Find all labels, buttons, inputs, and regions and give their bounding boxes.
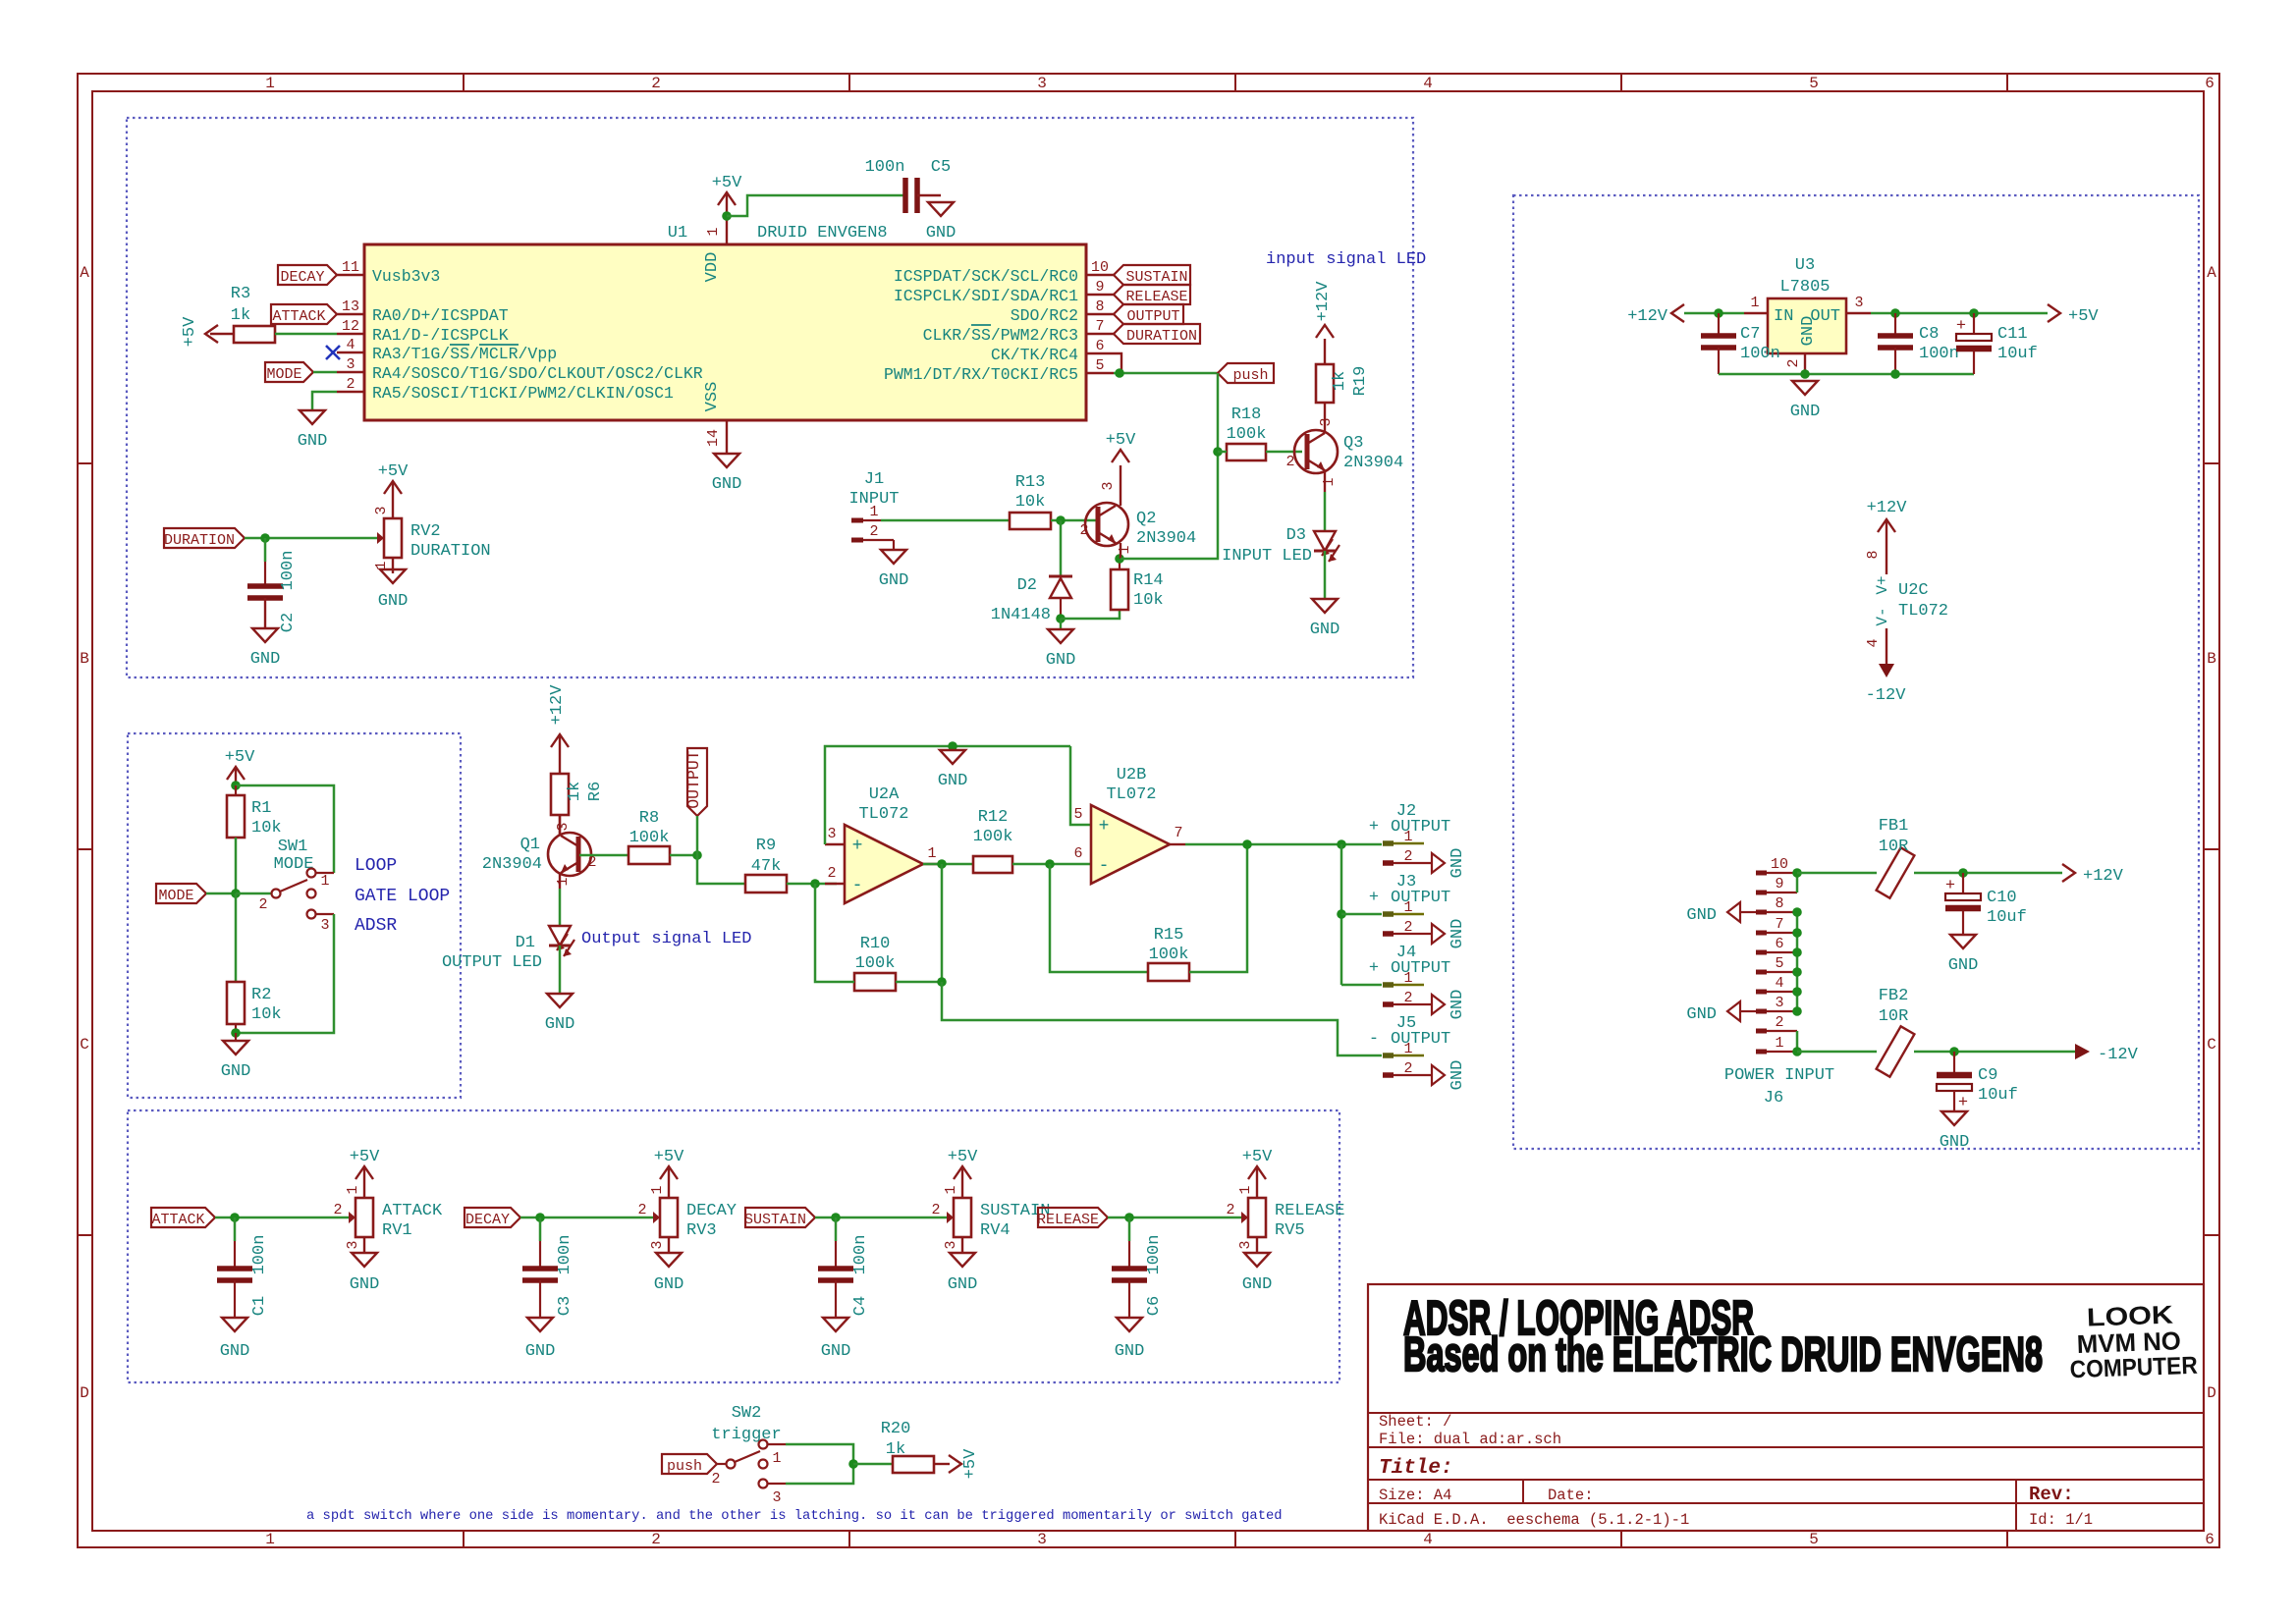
svg-text:14: 14 xyxy=(705,429,722,447)
resistor R10 100k xyxy=(854,935,896,991)
svg-text:10k: 10k xyxy=(251,1005,282,1024)
junction J6 bus xyxy=(1792,1006,1802,1016)
svg-text:10uf: 10uf xyxy=(1997,345,2038,363)
svg-text:GND: GND xyxy=(1115,1342,1145,1361)
svg-text:OUTPUT: OUTPUT xyxy=(1391,1030,1450,1049)
svg-text:-: - xyxy=(1099,856,1110,876)
svg-text:10uf: 10uf xyxy=(1987,908,2027,927)
capacitor C3 100n xyxy=(522,1235,574,1317)
svg-text:RA5/SOSCI/T1CKI/PWM2/CLKIN/OSC: RA5/SOSCI/T1CKI/PWM2/CLKIN/OSC1 xyxy=(372,384,674,403)
svg-text:push: push xyxy=(1232,367,1268,384)
svg-text:GND: GND xyxy=(221,1062,251,1081)
power +5V at R3 xyxy=(181,316,234,347)
junction at C8 top xyxy=(1890,308,1900,318)
wire R15 to U2B output xyxy=(1189,844,1247,972)
svg-text:RELEASE: RELEASE xyxy=(1125,289,1187,305)
svg-text:GND: GND xyxy=(525,1342,556,1361)
svg-text:2: 2 xyxy=(869,523,878,540)
global label GND at J5 xyxy=(1432,1060,1467,1091)
wire C3 to ground xyxy=(539,1280,541,1318)
svg-text:3: 3 xyxy=(1318,417,1335,426)
global label ATTACK xyxy=(151,1208,215,1228)
U1 pin 3 RA4/SOSCO/T1G/SDO/CLKOUT/OSC2/CLKR xyxy=(337,356,703,383)
resistor R18 100k xyxy=(1227,406,1267,460)
svg-text:MODE: MODE xyxy=(266,366,301,383)
junction at R1 top xyxy=(231,781,241,790)
wire FB2 to -12V xyxy=(1914,1051,2075,1054)
svg-text:SW1: SW1 xyxy=(278,838,308,856)
global label MODE at SW1 xyxy=(156,884,206,904)
capacitor C4 100n xyxy=(818,1235,870,1317)
svg-text:GND: GND xyxy=(712,475,742,494)
svg-text:2: 2 xyxy=(827,865,836,882)
svg-text:+5V: +5V xyxy=(225,748,255,767)
svg-text:3: 3 xyxy=(373,506,390,514)
svg-text:1: 1 xyxy=(1321,477,1338,486)
ground at C1 xyxy=(220,1318,250,1361)
svg-text:100k: 100k xyxy=(973,828,1013,846)
svg-text:R19: R19 xyxy=(1351,366,1370,397)
svg-text:1k: 1k xyxy=(1331,371,1349,391)
resistor R20 1k xyxy=(881,1420,934,1473)
svg-text:3: 3 xyxy=(772,1489,781,1506)
wire R8 to OUTPUT junction xyxy=(670,854,697,857)
svg-text:Size: A4: Size: A4 xyxy=(1379,1487,1451,1504)
svg-text:TL072: TL072 xyxy=(1898,602,1948,621)
wire C4 to ground xyxy=(835,1280,837,1318)
svg-text:RV3: RV3 xyxy=(686,1221,717,1240)
connector J3 + OUTPUT xyxy=(1369,873,1450,936)
junction R10 right xyxy=(937,977,947,987)
svg-text:B: B xyxy=(2207,650,2216,668)
resistor R6 1k xyxy=(551,774,605,815)
svg-text:trigger: trigger xyxy=(711,1426,781,1444)
svg-text:RV2: RV2 xyxy=(410,522,441,541)
potentiometer RV2 DURATION xyxy=(366,503,491,573)
svg-text:input signal LED: input signal LED xyxy=(1266,250,1426,269)
global label RELEASE xyxy=(1114,285,1190,305)
svg-text:C9: C9 xyxy=(1978,1066,1997,1085)
capacitor C7 100n xyxy=(1701,325,1780,363)
svg-text:2N3904: 2N3904 xyxy=(1136,529,1196,548)
svg-text:10uf: 10uf xyxy=(1978,1086,2018,1105)
junction R13 output xyxy=(1056,515,1066,525)
svg-text:DECAY: DECAY xyxy=(465,1212,510,1228)
wire C10 to ground xyxy=(1962,911,1964,935)
svg-text:2: 2 xyxy=(651,75,661,92)
wire MODE label to junction xyxy=(206,893,236,895)
global label GND at J2 xyxy=(1432,848,1467,879)
wire junction to R9 xyxy=(697,855,745,884)
svg-text:100n: 100n xyxy=(556,1235,574,1275)
svg-text:100k: 100k xyxy=(629,829,670,847)
svg-text:R8: R8 xyxy=(639,809,659,828)
svg-text:CLKR/SS/PWM2/RC3: CLKR/SS/PWM2/RC3 xyxy=(923,326,1078,345)
svg-text:2: 2 xyxy=(651,1531,661,1548)
svg-text:GND: GND xyxy=(1686,1005,1717,1024)
U1 pin 4 RA3/T1G/SS/MCLR/Vpp xyxy=(337,337,557,363)
wire junction down to R15 loop xyxy=(1050,864,1148,972)
power -12V arrow right xyxy=(2075,1044,2139,1064)
svg-text:3: 3 xyxy=(320,917,329,934)
U1 pin 6 CK/TK/RC4 xyxy=(991,338,1114,364)
svg-text:MODE: MODE xyxy=(158,888,193,904)
svg-text:RA4/SOSCO/T1G/SDO/CLKOUT/OSC2/: RA4/SOSCO/T1G/SDO/CLKOUT/OSC2/CLKR xyxy=(372,364,703,383)
svg-text:100n: 100n xyxy=(250,1235,269,1275)
svg-text:+5V: +5V xyxy=(712,174,742,192)
svg-text:2: 2 xyxy=(333,1202,342,1218)
connector J2 + OUTPUT xyxy=(1369,802,1450,865)
svg-text:V-: V- xyxy=(1874,607,1891,625)
svg-text:SUSTAIN: SUSTAIN xyxy=(1125,269,1187,286)
wire U1 pin 5 to push label xyxy=(1114,372,1218,375)
svg-text:3: 3 xyxy=(345,1240,361,1249)
capacitor C10 10uf polarized xyxy=(1945,873,2027,927)
wire OUTPUT label to junction xyxy=(696,816,699,855)
svg-text:+5V: +5V xyxy=(961,1448,980,1479)
svg-text:GND: GND xyxy=(1310,621,1340,639)
svg-text:GND: GND xyxy=(378,592,409,611)
junction DURATION net xyxy=(260,533,270,543)
wire J6 pins 2-1 bus xyxy=(1796,1031,1799,1052)
wire C8 bottom xyxy=(1894,348,1896,374)
wire +12V to U3 pin 1 xyxy=(1684,312,1744,315)
junction push net at R18 xyxy=(1213,447,1223,457)
global label DECAY xyxy=(465,1208,520,1228)
svg-text:R9: R9 xyxy=(756,837,776,855)
dashed box pots section xyxy=(128,1110,1339,1382)
wire junction to SW1 common xyxy=(236,893,271,895)
resistor R13 10k xyxy=(1010,473,1051,529)
svg-text:+: + xyxy=(1956,317,1966,336)
svg-text:CK/TK/RC4: CK/TK/RC4 xyxy=(991,346,1078,364)
svg-text:GND: GND xyxy=(350,1275,380,1294)
svg-text:Title:: Title: xyxy=(1379,1457,1453,1480)
svg-text:2: 2 xyxy=(587,854,596,871)
wire junction down to C4 xyxy=(835,1217,838,1241)
junction U2B output at J2 branch xyxy=(1337,839,1346,849)
svg-text:4: 4 xyxy=(1775,975,1783,992)
global label GND at J6 pin 8 xyxy=(1686,902,1756,925)
ground at C2 xyxy=(250,628,281,669)
global label DECAY xyxy=(278,265,337,286)
svg-text:1: 1 xyxy=(943,1185,959,1194)
wire ATTACK label to RV1 xyxy=(215,1217,338,1219)
svg-text:100k: 100k xyxy=(1149,946,1189,964)
potentiometer RV3 DECAY xyxy=(637,1182,737,1253)
svg-text:Q3: Q3 xyxy=(1343,434,1363,453)
junction below D2 xyxy=(1056,614,1066,623)
capacitor C5 100n xyxy=(865,158,952,213)
svg-text:R15: R15 xyxy=(1154,926,1184,945)
svg-text:OUTPUT: OUTPUT xyxy=(1126,308,1179,325)
wire J6 pins 8-3 bus xyxy=(1796,912,1799,1011)
transistor Q3 2N3904 xyxy=(1285,403,1403,492)
resistor R2 10k xyxy=(227,893,282,1033)
svg-text:2: 2 xyxy=(1775,1014,1783,1031)
wire C9 to ground xyxy=(1953,1091,1955,1111)
wire U3 output to +5V xyxy=(1871,312,2048,315)
svg-text:2: 2 xyxy=(258,896,267,913)
ferrite bead FB2 10R xyxy=(1877,987,1915,1077)
global label OUTPUT vertical xyxy=(684,748,707,816)
svg-text:DRUID ENVGEN8: DRUID ENVGEN8 xyxy=(757,224,888,243)
svg-text:RV4: RV4 xyxy=(980,1221,1011,1240)
svg-text:8: 8 xyxy=(1775,895,1783,912)
wire J6 pin10 to FB1 xyxy=(1797,872,1877,875)
svg-text:POWER INPUT: POWER INPUT xyxy=(1724,1066,1834,1085)
ground below D2 xyxy=(1046,619,1076,670)
junction SW2 output xyxy=(848,1459,858,1469)
svg-text:13: 13 xyxy=(342,298,359,315)
svg-text:8: 8 xyxy=(1095,298,1104,315)
svg-text:U2B: U2B xyxy=(1117,766,1147,784)
svg-text:R13: R13 xyxy=(1015,473,1046,492)
ground at D1 xyxy=(545,994,575,1034)
junction ground rail xyxy=(1800,369,1810,379)
svg-text:Id: 1/1: Id: 1/1 xyxy=(2029,1511,2093,1529)
global label ATTACK xyxy=(271,304,337,325)
resistor R8 100k xyxy=(629,809,670,864)
svg-text:KiCad E.D.A. eeschema (5.1.2-: KiCad E.D.A. eeschema (5.1.2-1)-1 xyxy=(1379,1511,1689,1529)
svg-text:+12V: +12V xyxy=(1867,499,1908,517)
wire junction to R18 xyxy=(1218,451,1227,454)
svg-text:-12V: -12V xyxy=(1866,686,1907,705)
wire push label to SW2 common xyxy=(717,1463,726,1465)
svg-text:1: 1 xyxy=(1775,1035,1783,1052)
svg-text:FB1: FB1 xyxy=(1879,817,1909,836)
svg-text:GND: GND xyxy=(1790,403,1821,421)
svg-text:GND: GND xyxy=(821,1342,851,1361)
wire DURATION label to RV2 xyxy=(245,537,366,540)
wire ground rail down to U2B + input xyxy=(1070,746,1091,825)
diode D2 1N4148 xyxy=(991,576,1072,624)
dashed box mode section xyxy=(128,733,461,1098)
svg-text:1: 1 xyxy=(705,227,722,236)
svg-text:RELEASE: RELEASE xyxy=(1275,1202,1344,1220)
power +5V at RV5 xyxy=(1242,1148,1273,1182)
svg-text:1N4148: 1N4148 xyxy=(991,606,1051,624)
op-amp U2C TL072 power pins xyxy=(1865,499,1948,705)
wire +5V rail to SW1 contact 1 xyxy=(236,785,334,873)
svg-text:9: 9 xyxy=(1095,279,1104,296)
power +12V at R19 xyxy=(1314,281,1334,364)
svg-text:R1: R1 xyxy=(251,799,271,818)
svg-text:+: + xyxy=(1958,1094,1968,1112)
svg-text:D2: D2 xyxy=(1017,576,1037,595)
svg-text:L7805: L7805 xyxy=(1779,278,1830,297)
svg-text:5: 5 xyxy=(1095,357,1104,374)
ground at RV5 xyxy=(1242,1253,1273,1294)
svg-text:2: 2 xyxy=(931,1202,940,1218)
svg-text:C: C xyxy=(2207,1036,2216,1054)
svg-text:File: dual ad:ar.sch: File: dual ad:ar.sch xyxy=(1379,1431,1561,1448)
svg-text:GND: GND xyxy=(250,650,281,669)
LED D1 OUTPUT LED xyxy=(442,926,574,972)
global label MODE at U1 xyxy=(265,362,313,383)
svg-text:3: 3 xyxy=(1854,295,1863,311)
svg-text:5: 5 xyxy=(1809,75,1819,92)
junction ground rail xyxy=(948,741,957,751)
power +12V at R6 xyxy=(548,684,569,774)
svg-text:2: 2 xyxy=(1285,454,1294,470)
ground at C4 xyxy=(821,1318,851,1361)
svg-text:3: 3 xyxy=(1237,1240,1254,1249)
svg-text:3: 3 xyxy=(1037,1531,1047,1548)
svg-text:ADSR: ADSR xyxy=(355,916,397,936)
wire RELEASE label to RV5 xyxy=(1108,1217,1230,1219)
svg-text:GND: GND xyxy=(654,1275,684,1294)
wire C6 to ground xyxy=(1128,1280,1130,1318)
junction pin5 net xyxy=(1115,368,1124,378)
IC U1 DRUID ENVGEN8 body xyxy=(364,244,1086,420)
power +5V at RV4 xyxy=(948,1148,978,1182)
junction at C9 xyxy=(1949,1047,1959,1056)
wire C2 to ground xyxy=(264,598,266,628)
transistor Q1 2N3904 xyxy=(482,815,597,889)
svg-text:+12V: +12V xyxy=(1627,307,1668,326)
svg-text:1k: 1k xyxy=(886,1440,905,1459)
U1 pin 8 SDO/RC2 xyxy=(1011,298,1114,325)
resistor R15 100k xyxy=(1148,926,1189,981)
svg-text:7: 7 xyxy=(1095,318,1104,335)
svg-text:C1: C1 xyxy=(250,1296,269,1316)
svg-text:GND: GND xyxy=(1686,906,1717,925)
svg-text:+: + xyxy=(1369,959,1379,978)
svg-text:GND: GND xyxy=(545,1015,575,1034)
wire Q3 emitter to D3 xyxy=(1324,492,1327,531)
power +5V above R1 xyxy=(225,748,255,785)
power +5V at U3 output xyxy=(2048,304,2099,326)
ground at RV1 xyxy=(350,1253,380,1294)
wire J6 pins 10-9 bus xyxy=(1796,873,1799,893)
wire R10 left to inverting input xyxy=(815,884,854,982)
svg-text:DURATION: DURATION xyxy=(410,542,491,561)
capacitor C2 100n xyxy=(247,551,298,633)
potentiometer RV4 SUSTAIN xyxy=(931,1182,1050,1253)
svg-text:A: A xyxy=(2207,264,2216,282)
wire D1 to ground xyxy=(559,946,562,994)
junction at C7 xyxy=(1714,308,1723,318)
ground at C6 xyxy=(1115,1318,1145,1361)
wire D2 to R14 bottom xyxy=(1061,610,1120,619)
svg-text:2: 2 xyxy=(1079,522,1088,539)
svg-text:10k: 10k xyxy=(1015,493,1046,512)
svg-text:3: 3 xyxy=(346,356,355,373)
power +5V at R20 xyxy=(934,1448,980,1479)
svg-text:C3: C3 xyxy=(556,1296,574,1316)
svg-text:1k: 1k xyxy=(566,782,584,801)
svg-text:Date:: Date: xyxy=(1548,1487,1594,1504)
global label OUTPUT at U1 xyxy=(1114,304,1183,325)
svg-text:RA1/D-/ICSPCLK: RA1/D-/ICSPCLK xyxy=(372,326,509,345)
wire R9 to U2A inverting input xyxy=(787,883,837,886)
svg-text:2: 2 xyxy=(346,376,355,393)
transistor Q2 2N3904 xyxy=(1079,465,1196,559)
global label GND at J6 pin 3 xyxy=(1686,1001,1756,1024)
svg-text:GND: GND xyxy=(926,224,957,243)
U1 pin 11 Vusb3v3 xyxy=(337,259,440,286)
wire output branch down to J4 xyxy=(1340,844,1343,985)
svg-text:FB2: FB2 xyxy=(1879,987,1909,1005)
U1 pin 9 ICSPCLK/SDI/SDA/RC1 xyxy=(894,279,1114,305)
svg-text:+: + xyxy=(1369,889,1379,907)
resistor R3 1k xyxy=(231,285,275,343)
ground at C10 xyxy=(1948,935,1979,975)
svg-text:+: + xyxy=(1369,818,1379,837)
wire branch to J3 pin1 xyxy=(1341,913,1382,916)
ground at RV2 xyxy=(378,569,409,611)
capacitor C1 100n xyxy=(217,1235,269,1317)
wire R18 to Q3 base xyxy=(1266,451,1302,454)
svg-text:ATTACK: ATTACK xyxy=(272,308,325,325)
svg-text:3: 3 xyxy=(1100,481,1117,490)
svg-text:GND: GND xyxy=(879,571,909,590)
ground below U1 VSS xyxy=(712,454,742,494)
svg-text:RELEASE: RELEASE xyxy=(1037,1212,1099,1228)
wire U2A output to R12 xyxy=(923,863,973,866)
ground at C9 xyxy=(1940,1111,1970,1152)
ground rail below U3 xyxy=(1719,373,1974,376)
ground at R2 xyxy=(221,1033,251,1081)
wire C11 bottom xyxy=(1973,352,1975,374)
svg-text:push: push xyxy=(667,1458,702,1475)
wire R10 to junction xyxy=(896,981,942,984)
global label GND at J4 xyxy=(1432,990,1467,1020)
svg-text:2: 2 xyxy=(711,1471,720,1488)
LED D3 INPUT LED xyxy=(1222,526,1339,566)
wire SW2 contacts loop xyxy=(786,1444,853,1484)
svg-text:+: + xyxy=(1945,877,1955,895)
svg-text:IN: IN xyxy=(1774,307,1793,326)
ground at RV4 xyxy=(948,1253,978,1294)
svg-text:100n: 100n xyxy=(1740,345,1780,363)
wire R14 top to Q2 emitter xyxy=(1119,559,1121,569)
wire R3 to U1 pin 12 xyxy=(275,333,337,336)
power +12V at U3 input xyxy=(1627,304,1684,326)
wire U2A output down to R10 xyxy=(941,864,944,982)
svg-text:C7: C7 xyxy=(1740,325,1760,344)
svg-text:7: 7 xyxy=(1174,825,1182,841)
svg-text:10: 10 xyxy=(1091,259,1109,276)
global label SUSTAIN xyxy=(744,1208,815,1228)
power +5V at RV3 xyxy=(654,1148,684,1182)
svg-text:a spdt switch where one side i: a spdt switch where one side is momentar… xyxy=(306,1508,1283,1524)
power +5V above U1 xyxy=(712,174,742,216)
resistor R19 1k xyxy=(1316,364,1370,403)
svg-text:9: 9 xyxy=(1775,876,1783,893)
svg-text:5: 5 xyxy=(1809,1531,1819,1548)
svg-text:GND: GND xyxy=(948,1275,978,1294)
junction DECAY net xyxy=(535,1213,545,1222)
svg-text:6: 6 xyxy=(1775,936,1783,952)
connector J5 - OUTPUT xyxy=(1369,1014,1450,1077)
svg-text:5: 5 xyxy=(1775,955,1783,972)
svg-text:8: 8 xyxy=(1865,550,1882,559)
U3 pin 3 xyxy=(1846,295,1871,313)
svg-text:GND: GND xyxy=(1948,956,1979,975)
junction at U1 VDD xyxy=(722,211,732,221)
svg-text:+: + xyxy=(1099,817,1110,837)
svg-text:C10: C10 xyxy=(1987,889,2017,907)
potentiometer RV5 RELEASE xyxy=(1226,1182,1344,1253)
svg-text:10R: 10R xyxy=(1879,838,1909,856)
capacitor C9 10uf polarized xyxy=(1937,1052,2018,1112)
U1 pin 14 VSS xyxy=(703,382,727,454)
svg-text:5: 5 xyxy=(1073,806,1082,823)
junction ATTACK net xyxy=(230,1213,240,1222)
op-amp U2B TL072 xyxy=(1073,766,1185,884)
